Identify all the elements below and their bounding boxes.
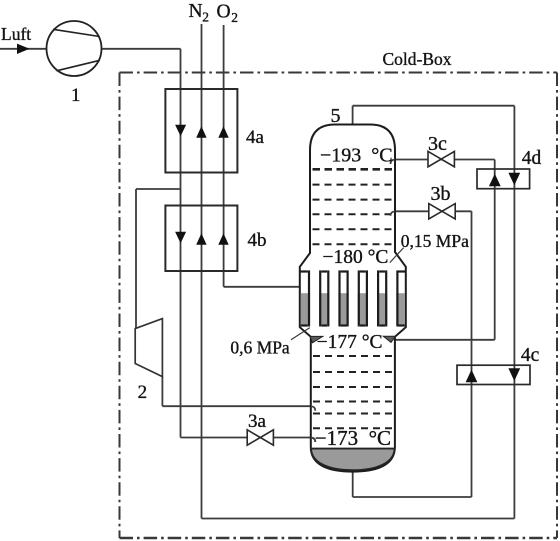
svg-text:5: 5 (331, 105, 341, 127)
svg-text:−180 °C: −180 °C (323, 247, 389, 268)
svg-text:3b: 3b (431, 183, 451, 205)
svg-text:−177 °C: −177 °C (317, 332, 383, 353)
svg-text:4b: 4b (248, 230, 267, 251)
svg-text:2: 2 (138, 382, 148, 403)
svg-text:3c: 3c (428, 133, 447, 155)
svg-text:−173 °C: −173 °C (315, 426, 391, 450)
svg-text:4c: 4c (521, 345, 540, 366)
svg-text:4a: 4a (246, 127, 265, 148)
svg-text:O: O (217, 2, 231, 23)
svg-text:N: N (189, 1, 203, 22)
svg-text:Cold-Box: Cold-Box (383, 49, 452, 69)
svg-text:Luft: Luft (1, 24, 31, 44)
svg-text:4d: 4d (522, 148, 542, 169)
svg-text:2: 2 (202, 10, 209, 25)
svg-text:1: 1 (71, 85, 81, 106)
svg-text:−193 °C: −193 °C (320, 145, 393, 167)
svg-text:0,15 MPa: 0,15 MPa (401, 231, 469, 251)
svg-text:3a: 3a (248, 411, 267, 432)
svg-text:0,6 MPa: 0,6 MPa (230, 338, 290, 358)
svg-text:2: 2 (231, 10, 238, 25)
